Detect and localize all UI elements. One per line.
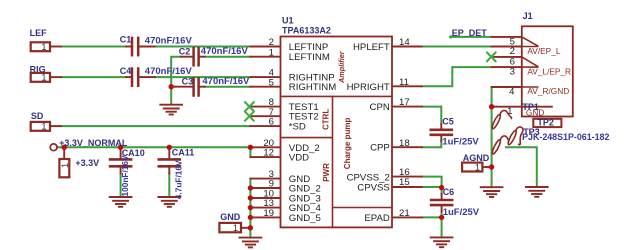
node GND_2: [248, 185, 253, 190]
testpoint TP2 box: [533, 119, 561, 127]
svg-text:TP2: TP2: [537, 117, 554, 127]
wire CA11 lower stem: [168, 173, 170, 197]
wire C3 to RIGHTINM: [205, 86, 251, 88]
wire EPAD node: [422, 216, 442, 218]
U1 divider CTRL/PWR: [281, 137, 333, 139]
pin 18 CPP: [392, 146, 422, 148]
svg-text:CPVSS_2: CPVSS_2: [347, 172, 390, 183]
svg-text:HPRIGHT: HPRIGHT: [347, 82, 390, 93]
wire TP3 to ground: [506, 147, 537, 187]
wire GND rail pins 3,9,10,13,19: [249, 179, 251, 238]
J1 pin 2: [492, 46, 522, 48]
node VDD rail: [248, 145, 253, 150]
node CPVSS: [439, 185, 444, 190]
no-connect J1 pin6: [487, 52, 496, 61]
pin 6 *SD: [251, 125, 281, 127]
svg-text:C6: C6: [443, 187, 455, 197]
pin 9 GND_2: [250, 187, 280, 189]
svg-text:GND: GND: [526, 107, 544, 117]
svg-text:AGND: AGND: [463, 153, 490, 163]
svg-text:EPAD: EPAD: [364, 213, 389, 224]
svg-text:*SD: *SD: [289, 122, 306, 133]
U1 divider amplifier: [281, 95, 393, 97]
svg-text:1uF/25V: 1uF/25V: [443, 207, 480, 218]
pin 20 VDD_2: [250, 146, 280, 148]
op-amp U1 box: [281, 37, 393, 228]
svg-text:18: 18: [399, 138, 410, 149]
port SD: [31, 122, 50, 132]
wire stub RIG port: [50, 76, 61, 78]
port GND: [219, 223, 241, 233]
svg-text:PJK-248S1P-061-182: PJK-248S1P-061-182: [522, 132, 609, 142]
pin 5 RIGHTINM: [251, 86, 281, 88]
J1 inner pin2: [522, 46, 539, 48]
ground TP3: [526, 187, 548, 197]
pin 4 RIGHTINP: [251, 76, 281, 78]
svg-text:16: 16: [399, 167, 410, 178]
svg-text:CA11: CA11: [172, 147, 195, 157]
svg-text:Charge pump: Charge pump: [343, 118, 352, 170]
svg-text:AV_R/GND: AV_R/GND: [527, 86, 569, 96]
svg-text:AV_L/EP_R: AV_L/EP_R: [527, 66, 571, 76]
pin 12 VDD: [250, 156, 280, 158]
pin 17 CPN: [392, 106, 422, 108]
J1 pin 5: [492, 36, 522, 38]
svg-text:CPVSS: CPVSS: [357, 183, 390, 194]
svg-text:AV/EP_L: AV/EP_L: [527, 46, 560, 56]
pin 15 CPVSS: [392, 186, 422, 188]
svg-text:LEFTINM: LEFTINM: [289, 52, 330, 63]
node GND_4: [248, 205, 253, 210]
svg-text:1: 1: [233, 223, 238, 233]
J1 switch contact pin5: [522, 37, 539, 46]
ground GND port: [240, 238, 262, 248]
testpoint TP1 loop: [491, 110, 512, 129]
svg-text:C5: C5: [442, 117, 454, 127]
pin 3 GND: [250, 178, 280, 180]
svg-text:19: 19: [263, 208, 274, 219]
svg-text:100nF/16V: 100nF/16V: [120, 155, 130, 197]
wire CA10 lower stem: [120, 173, 122, 197]
svg-text:C4: C4: [120, 66, 132, 76]
port RIG: [31, 73, 50, 83]
capacitor C2: [181, 48, 205, 65]
node GND port: [248, 225, 253, 230]
svg-text:17: 17: [399, 97, 410, 108]
svg-text:TPA6133A2: TPA6133A2: [282, 26, 331, 36]
capacitor CA10: [110, 147, 131, 173]
wire RIG to C4: [61, 76, 126, 78]
pin 13 GND_4: [250, 207, 280, 209]
port +3.3V: [59, 159, 70, 177]
svg-text:470nF/16V: 470nF/16V: [201, 46, 249, 57]
svg-text:C2: C2: [179, 46, 191, 56]
svg-text:PWR: PWR: [322, 163, 331, 182]
svg-text:CPN: CPN: [370, 102, 390, 113]
svg-text:1: 1: [507, 106, 512, 117]
connector J1 box: [522, 26, 573, 116]
port LEF: [31, 42, 50, 52]
pin 8 TEST1: [251, 106, 281, 108]
svg-text:11: 11: [399, 77, 409, 88]
svg-text:RIG: RIG: [30, 65, 46, 75]
svg-text:+3.3V: +3.3V: [75, 158, 99, 168]
wire CPVSS_2 down: [422, 177, 442, 188]
J1 pin 3: [492, 66, 522, 68]
ground CA11: [158, 197, 180, 207]
wire stub LEF port: [50, 46, 61, 48]
svg-text:2: 2: [510, 46, 515, 57]
node EP_DET end: [449, 35, 452, 38]
svg-text:J1: J1: [523, 11, 533, 21]
J1 inner pin4: [522, 86, 539, 88]
pin 10 GND_3: [250, 197, 280, 199]
node GND_5: [248, 215, 253, 220]
node open terminal: [50, 144, 57, 151]
ground EPAD/C6: [431, 237, 453, 247]
node GND_3: [248, 195, 253, 200]
svg-text:1uF/25V: 1uF/25V: [442, 137, 479, 148]
svg-text:CTRL: CTRL: [322, 109, 331, 130]
svg-text:470nF/16V: 470nF/16V: [145, 35, 193, 46]
wire C6 upper stem: [441, 188, 443, 195]
node C2/C3 ground: [169, 84, 174, 89]
capacitor CA11: [159, 147, 180, 173]
wire stub AGND port: [484, 166, 492, 168]
node AGND: [489, 164, 494, 169]
pin 2 LEFTINP: [251, 46, 281, 48]
node +3.3V tap: [61, 145, 66, 150]
wire HPLEFT to J1 pin2: [422, 46, 492, 48]
no-connect TEST1: [245, 102, 254, 111]
svg-text:HPLEFT: HPLEFT: [353, 42, 390, 53]
wire HPRIGHT to J1 pin3: [422, 67, 492, 86]
wire CPN to C5: [422, 107, 442, 124]
wire C4 to RIGHTINP: [155, 76, 251, 78]
wire stub SD port: [50, 125, 61, 127]
svg-text:470nF/16V: 470nF/16V: [202, 76, 250, 87]
J1 pin 4: [492, 86, 522, 88]
pin 14 HPLEFT: [392, 46, 422, 48]
svg-text:GND_5: GND_5: [289, 213, 321, 224]
wire C6 lower stem: [441, 212, 443, 218]
capacitor C1: [126, 38, 155, 55]
wire C2 left corner down: [171, 57, 181, 104]
svg-text:14: 14: [399, 37, 410, 48]
port AGND: [462, 162, 482, 172]
svg-text:VDD: VDD: [289, 153, 309, 164]
wire J1 pin4 down to AGND: [491, 87, 493, 167]
wire C5 to CPP: [422, 141, 442, 147]
capacitor C4: [126, 69, 155, 86]
svg-text:1: 1: [269, 47, 274, 58]
wire rail to VDD pin12: [249, 147, 251, 157]
svg-text:1: 1: [60, 163, 70, 168]
ground C2/C3 node: [160, 105, 182, 115]
capacitor C6: [431, 194, 452, 212]
J1 pin 6: [492, 56, 522, 58]
testpoint TP3 loop: [491, 127, 523, 155]
node J1 pin1: [489, 104, 494, 109]
capacitor C5: [431, 124, 452, 141]
ground CA10: [110, 197, 132, 207]
ground AGND: [481, 187, 503, 197]
wire +3.3V_NORMAL rail: [58, 146, 251, 148]
svg-text:5: 5: [269, 77, 274, 88]
pin 11 HPRIGHT: [392, 85, 422, 87]
J1 inner pin1: [522, 106, 553, 108]
U1 divider vertical: [332, 96, 334, 227]
pin 1 LEFTINM: [251, 56, 281, 58]
svg-text:EP_DET: EP_DET: [452, 28, 488, 38]
svg-text:LEF: LEF: [30, 28, 48, 38]
svg-text:12: 12: [263, 148, 274, 159]
svg-text:C1: C1: [120, 35, 132, 45]
wire CPVSS: [422, 186, 442, 188]
wire AGND ground stem: [491, 167, 493, 187]
svg-text:15: 15: [399, 177, 410, 188]
wire stub +3.3V port: [63, 147, 65, 158]
wire EPAD ground stem: [441, 217, 443, 237]
svg-text:C3: C3: [182, 77, 194, 87]
pin 19 GND_5: [250, 216, 280, 218]
svg-text:RIGHTINM: RIGHTINM: [289, 82, 336, 93]
svg-text:Amplifier: Amplifier: [337, 50, 346, 84]
capacitor C3: [175, 78, 205, 95]
node EPAD: [439, 215, 444, 220]
svg-text:+3.3V_NORMAL: +3.3V_NORMAL: [59, 138, 128, 148]
J1 switch contact pin6: [522, 57, 539, 67]
wire node to C3: [171, 86, 175, 88]
pin 16 CPVSS_2: [392, 176, 422, 178]
pin 21 EPAD: [392, 216, 422, 218]
wire C2 to LEFTINM: [205, 56, 251, 58]
wire C1 to LEFTINP: [155, 46, 251, 48]
pin 7 TEST2: [251, 115, 281, 117]
svg-text:1: 1: [475, 162, 480, 172]
svg-text:3: 3: [510, 67, 515, 78]
svg-text:1: 1: [41, 42, 46, 52]
node CA10: [118, 145, 123, 150]
node CA11: [167, 145, 172, 150]
svg-text:470nF/16V: 470nF/16V: [145, 66, 193, 77]
svg-text:U1: U1: [282, 16, 294, 26]
svg-text:SD: SD: [31, 111, 44, 121]
J1 inner pin3: [522, 66, 539, 68]
wire SD to *SD: [61, 125, 251, 127]
wire LEF to C1: [61, 46, 126, 48]
svg-text:CPP: CPP: [370, 143, 390, 154]
svg-text:21: 21: [399, 208, 410, 219]
svg-text:4: 4: [509, 87, 515, 98]
svg-text:GND: GND: [220, 212, 241, 222]
U1 divider EPAD: [333, 207, 393, 209]
wire stub GND port: [242, 227, 250, 229]
no-connect TEST2: [245, 112, 254, 121]
svg-text:4.7uF/16V: 4.7uF/16V: [174, 160, 184, 199]
wire EP_DET: [451, 36, 492, 38]
svg-text:1: 1: [41, 122, 46, 132]
svg-text:6: 6: [269, 117, 274, 128]
J1 pin 1: [492, 106, 522, 108]
